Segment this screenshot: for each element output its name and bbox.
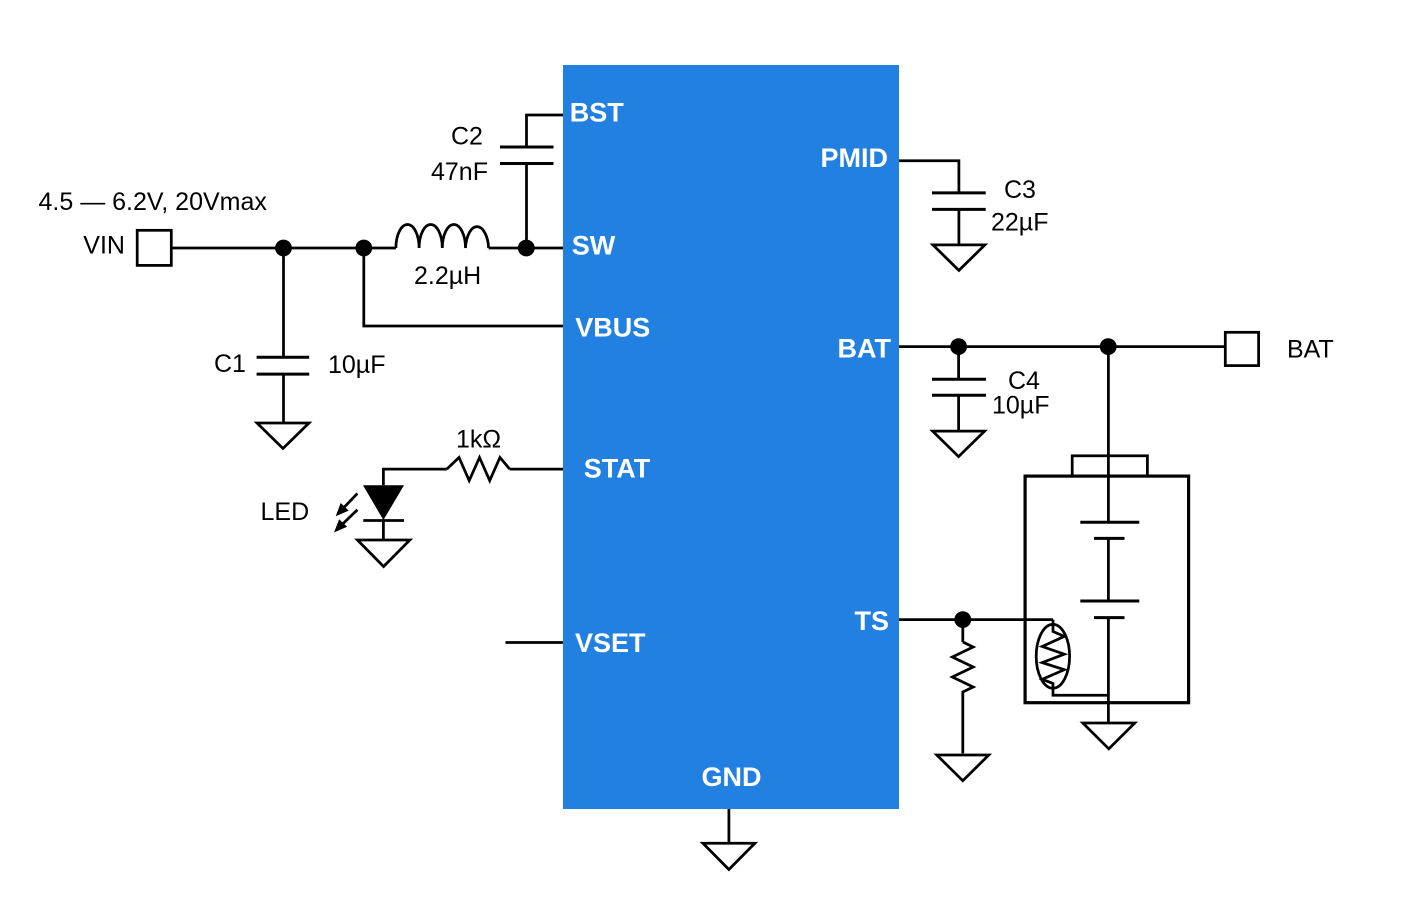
svg-text:C3: C3 xyxy=(1004,176,1036,204)
svg-text:SW: SW xyxy=(572,231,616,261)
svg-text:BAT: BAT xyxy=(1287,336,1334,364)
svg-text:10µF: 10µF xyxy=(992,392,1049,420)
svg-text:VIN: VIN xyxy=(83,232,125,260)
svg-text:STAT: STAT xyxy=(584,454,651,484)
svg-text:C2: C2 xyxy=(451,123,483,151)
svg-text:22µF: 22µF xyxy=(991,209,1048,237)
svg-text:VBUS: VBUS xyxy=(575,313,650,343)
svg-text:C1: C1 xyxy=(214,350,246,378)
svg-text:2.2µH: 2.2µH xyxy=(414,262,481,290)
svg-text:VSET: VSET xyxy=(575,628,646,658)
svg-text:PMID: PMID xyxy=(821,143,889,173)
svg-text:4.5 — 6.2V, 20Vmax: 4.5 — 6.2V, 20Vmax xyxy=(39,188,268,216)
svg-text:LED: LED xyxy=(261,498,310,526)
svg-text:BAT: BAT xyxy=(838,334,892,364)
svg-text:1kΩ: 1kΩ xyxy=(456,426,501,454)
svg-text:TS: TS xyxy=(854,606,889,636)
svg-text:GND: GND xyxy=(702,762,762,792)
svg-text:47nF: 47nF xyxy=(431,158,488,186)
svg-text:BST: BST xyxy=(570,98,625,128)
svg-text:10µF: 10µF xyxy=(328,351,385,379)
